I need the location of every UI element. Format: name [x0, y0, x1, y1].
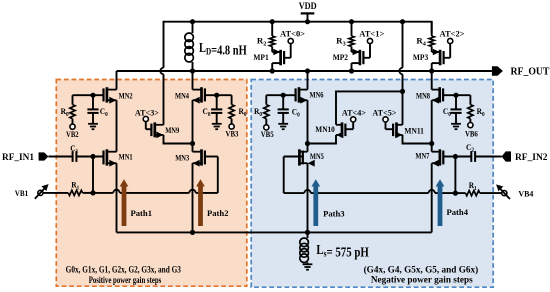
VDD supply symbol — [301, 12, 315, 14]
wire: MN8 source to junction — [431, 100, 433, 143]
ground (LS) — [303, 263, 313, 265]
Path2 arrow — [198, 186, 203, 226]
wire: MN9 drain line (hop over output rail) — [163, 22, 165, 68]
svg-text:RF_OUT: RF_OUT — [511, 67, 550, 78]
resistor R0 (VB5) — [265, 95, 267, 104]
wire: C2 to RF_IN2 port — [475, 156, 502, 158]
svg-text:MN10: MN10 — [315, 124, 335, 134]
svg-text:MN9: MN9 — [165, 125, 179, 135]
node: MN7 gate input node — [453, 154, 458, 159]
node: MN7/MN8 junction — [429, 141, 434, 146]
nmos MN9 — [153, 122, 156, 137]
wire: MN5 gate to bias riser — [284, 156, 303, 158]
svg-text:MP3: MP3 — [413, 52, 429, 62]
terminal VB1 (variable arrow) — [38, 190, 43, 195]
resistor R0 (VB2) — [72, 95, 74, 104]
svg-text:R3: R3 — [336, 36, 346, 48]
svg-text:R4: R4 — [416, 36, 426, 48]
wire: RF_IN1 to C1 — [48, 156, 72, 158]
nmos MN7 — [439, 149, 442, 165]
node: output rail junctions — [190, 68, 195, 73]
node: MN10/MN11 drain tie — [400, 89, 405, 94]
ground (C0 MN6) — [278, 123, 288, 125]
capacitor C0 (MN6 gate) — [282, 95, 284, 109]
ground (C0 MN2) — [88, 123, 98, 125]
wire: input node to C2 — [455, 156, 471, 158]
pmos MP3 with resistor R4 and gate AT<2> — [431, 22, 433, 36]
node: left inner junction — [190, 141, 195, 146]
svg-text:VB2: VB2 — [66, 129, 79, 139]
wire: MN11 drain line (hop over output rail) — [402, 22, 404, 68]
wire: MN3 gate to bias riser — [205, 156, 218, 158]
wire: LD node to MN4 drain — [192, 71, 194, 90]
resistor R0 (VB6) — [469, 95, 471, 104]
svg-text:AT<3>: AT<3> — [135, 108, 159, 118]
wire: R1 to VB4 — [480, 192, 502, 194]
wire: MN2 source to MN1 drain — [116, 100, 118, 152]
ground (C0 MN8) — [451, 123, 461, 125]
svg-text:VB4: VB4 — [518, 188, 534, 198]
svg-text:LD=4.8 nH: LD=4.8 nH — [199, 41, 247, 59]
svg-text:Positive power gain steps: Positive power gain steps — [89, 275, 162, 286]
nmos MN11 — [395, 122, 398, 137]
port RF_IN2 — [502, 151, 511, 161]
svg-text:AT<1>: AT<1> — [359, 28, 384, 38]
wire: MN2 gate node — [73, 94, 104, 96]
Path1 arrow — [122, 186, 127, 226]
wire: MN11 source to junction — [403, 135, 432, 144]
capacitor C2 — [470, 151, 472, 162]
terminal VB6 — [468, 123, 473, 128]
svg-text:MN2: MN2 — [119, 91, 133, 101]
node C0 top (MN8) — [453, 93, 458, 98]
wire: MN10 source to junction — [308, 135, 337, 144]
nmos MN8 — [438, 87, 441, 102]
node: MN1 gate input node — [90, 154, 95, 159]
svg-text:RF_IN2: RF_IN2 — [515, 152, 548, 162]
svg-text:VB3: VB3 — [226, 129, 239, 139]
wire: output rail to RF_OUT — [117, 70, 492, 72]
svg-text:RF_IN1: RF_IN1 — [2, 152, 34, 162]
wire: MN7 gate to input node — [443, 156, 455, 158]
node: VDD rail junctions — [190, 19, 195, 24]
wire: left bias line with hops — [93, 192, 113, 194]
terminal VB3 — [229, 124, 234, 129]
terminal AT<3> — [143, 116, 148, 121]
wire: MN1 source to bottom rail — [116, 163, 118, 232]
port RF_IN1 — [39, 152, 49, 160]
resistor R1 (left) — [68, 190, 82, 195]
wire: input node to bias line — [92, 157, 94, 193]
wire: MN9 source to junction — [164, 135, 193, 144]
capacitor C0 (MN8 gate) — [455, 95, 457, 109]
svg-text:MN4: MN4 — [175, 91, 189, 101]
svg-text:VDD: VDD — [299, 2, 317, 12]
ground (C0 MN4) — [212, 123, 222, 125]
nmos MN4 — [200, 87, 203, 102]
wire: input node to right bias line — [454, 157, 456, 194]
wire: R1 to bias node — [83, 192, 94, 194]
svg-text:AT<4>: AT<4> — [342, 108, 366, 118]
wire: bias node to R1 (right) — [455, 192, 465, 194]
port RF_OUT — [492, 66, 503, 75]
node: MN5/MN6 junction — [305, 141, 310, 146]
wire: MN8 gate node — [443, 94, 470, 96]
nmos MN10 — [341, 122, 344, 137]
svg-text:MN11: MN11 — [404, 126, 424, 136]
svg-text:MN6: MN6 — [310, 89, 324, 99]
svg-text:R2: R2 — [257, 36, 267, 48]
Path4 arrow — [438, 186, 443, 226]
wire: VB1 to R1 — [43, 192, 68, 194]
svg-text:Negative power gain steps: Negative power gain steps — [371, 275, 473, 286]
svg-text:AT<0>: AT<0> — [280, 28, 305, 38]
wire: MN6 gate node — [266, 94, 295, 96]
pmos MP2 with resistor R3 and gate AT<1> — [351, 22, 353, 36]
svg-text:Path1: Path1 — [131, 208, 153, 218]
terminal VB5 — [264, 125, 269, 130]
node: left bias node — [90, 190, 95, 195]
svg-text:MP1: MP1 — [253, 52, 268, 62]
wire: junction to MN7 drain — [431, 144, 433, 152]
nmos MN5 — [298, 149, 301, 165]
inductor LD — [192, 22, 194, 33]
capacitor C0 (MN2 gate) — [92, 95, 94, 109]
wire: MN3 source to bottom rail — [192, 163, 194, 232]
svg-text:MN1: MN1 — [119, 151, 133, 161]
terminal AT<5> — [383, 117, 388, 122]
svg-text:Path3: Path3 — [323, 209, 345, 219]
wire: MN10 drain riser to MN11 line — [336, 91, 403, 124]
svg-text:AT<2>: AT<2> — [440, 28, 465, 38]
wire: MN5 source to bottom rail — [307, 163, 309, 232]
svg-text:MN5: MN5 — [310, 151, 324, 161]
wire: junction to MN3 drain — [192, 144, 194, 152]
orange box: positive power gain steps region — [56, 80, 247, 287]
Path3 arrow — [313, 186, 318, 226]
node C0 top (MN6) — [281, 93, 286, 98]
nmos MN6 — [298, 87, 301, 102]
wire: bias to MN3 gate — [217, 157, 219, 193]
wire: MN4 source to junction — [192, 100, 194, 143]
terminal VB4 (variable arrow) — [502, 191, 507, 196]
wire: junction to MN5 drain — [307, 144, 309, 152]
blue box: negative power gain steps region — [251, 80, 493, 288]
svg-text:AT<5>: AT<5> — [372, 108, 396, 118]
svg-text:VB6: VB6 — [465, 128, 478, 138]
wire: MN7 source to bottom rail — [431, 163, 433, 232]
wire: right bias line with hops — [284, 192, 305, 194]
svg-text:VB5: VB5 — [261, 129, 274, 139]
svg-text:MN3: MN3 — [175, 152, 189, 162]
wire: MN6 drain to output rail — [307, 71, 309, 90]
capacitor C0 (MN4 gate) — [216, 95, 218, 109]
svg-text:VB1: VB1 — [15, 188, 29, 198]
nmos MN1 — [106, 149, 109, 165]
svg-text:Path4: Path4 — [447, 207, 469, 217]
terminal VB2 — [70, 124, 75, 129]
svg-text:MP2: MP2 — [333, 52, 349, 62]
wire: MN8 drain to output rail — [431, 71, 433, 90]
node: bottom rail junctions — [190, 230, 195, 235]
node: right bias node — [453, 191, 458, 196]
wire: MN4 gate node — [205, 94, 232, 96]
terminal AT<4> — [351, 117, 356, 122]
wire: top VDD rail — [163, 22, 432, 34]
capacitor C1 — [72, 151, 74, 162]
svg-text:Path2: Path2 — [207, 208, 229, 218]
resistor R1 (right) — [466, 191, 480, 196]
nmos MN2 — [106, 87, 109, 102]
resistor R0 (VB3) — [231, 95, 233, 104]
pmos MP1 with resistor R2 and gate AT<0> — [271, 22, 273, 36]
wire: MN2 drain to output rail — [116, 71, 118, 90]
node C0 top — [90, 93, 95, 98]
svg-text:G0x, G1x, G1, G2x, G2, G3x, an: G0x, G1x, G1, G2x, G2, G3x, and G3 — [66, 265, 181, 276]
inductor LS — [307, 232, 309, 238]
wire: MN6 source to junction — [307, 100, 309, 143]
wire: bottom source rail — [117, 231, 432, 233]
svg-text:MN8: MN8 — [416, 90, 430, 100]
svg-text:MN7: MN7 — [415, 150, 429, 160]
nmos MN3 — [200, 149, 203, 165]
wire: C1 to MN1 gate — [76, 156, 103, 158]
node C0 top (MN4) — [214, 93, 219, 98]
